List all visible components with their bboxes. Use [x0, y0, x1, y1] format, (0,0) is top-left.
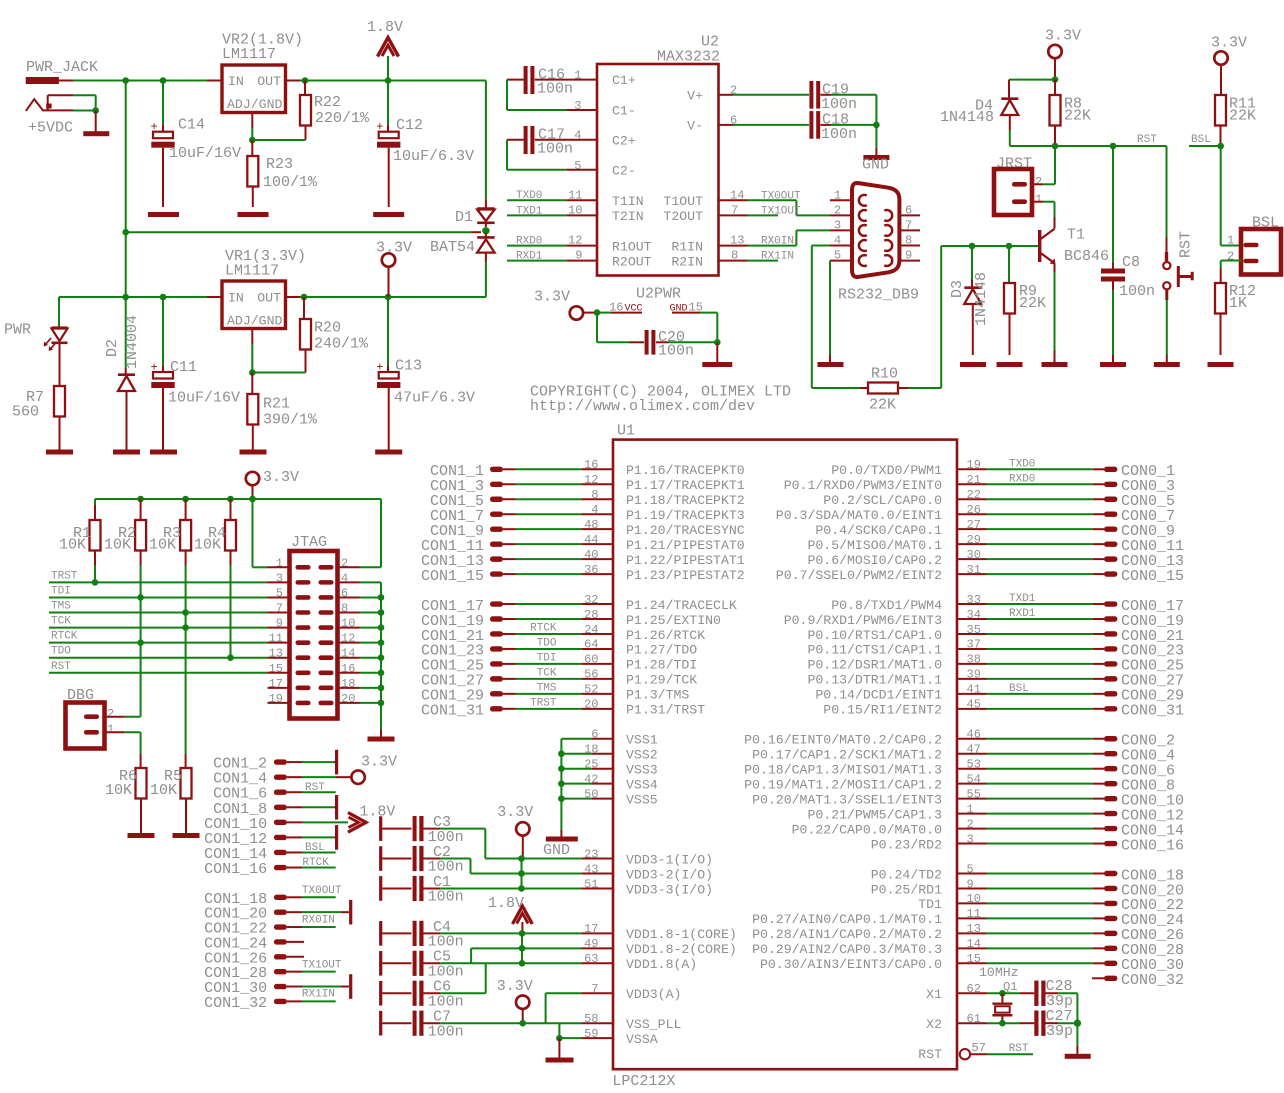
svg-text:13: 13 — [967, 922, 981, 936]
wire DBG pin1 to R6 — [125, 732, 141, 754]
svg-text:1.8V: 1.8V — [367, 19, 403, 36]
svg-text:D3: D3 — [949, 280, 966, 298]
svg-text:C12: C12 — [396, 117, 423, 134]
junction D1 center — [482, 227, 489, 234]
junction rail R3 — [182, 496, 189, 503]
svg-text:10: 10 — [967, 892, 981, 906]
connector pin CON0_15 wire pin 31 — [957, 563, 1184, 585]
svg-text:33: 33 — [967, 593, 981, 607]
svg-text:PWR_JACK: PWR_JACK — [26, 59, 98, 76]
svg-text:BSL: BSL — [1009, 683, 1029, 695]
resistor R23 — [247, 140, 318, 207]
connector pin CON1_9 wire pin 48 — [430, 518, 613, 540]
svg-text:1: 1 — [1227, 234, 1234, 248]
svg-text:P1.17/TRACEPKT1: P1.17/TRACEPKT1 — [626, 478, 745, 493]
svg-text:C1-: C1- — [612, 104, 636, 119]
svg-text:R22: R22 — [314, 94, 341, 111]
resistor R11 — [1215, 95, 1256, 146]
connector pin CON0_11 wire pin 29 — [957, 533, 1184, 555]
junction C27 — [1074, 1019, 1081, 1026]
svg-text:PWR: PWR — [4, 322, 31, 339]
svg-text:C1+: C1+ — [612, 73, 636, 88]
capacitor C20 — [629, 329, 717, 360]
svg-text:TXD1: TXD1 — [1009, 593, 1036, 605]
svg-text:OUT: OUT — [257, 291, 281, 306]
svg-text:TRST: TRST — [51, 570, 78, 582]
svg-text:41: 41 — [967, 683, 981, 697]
junction R4 TDO — [227, 654, 234, 661]
svg-text:ADJ/GND: ADJ/GND — [227, 314, 282, 329]
resistor R8 — [1050, 80, 1092, 146]
svg-text:8: 8 — [731, 249, 738, 263]
svg-text:TDI: TDI — [51, 585, 71, 597]
connector pin CON1_11 wire pin 44 — [421, 533, 613, 555]
svg-text:RS232_DB9: RS232_DB9 — [838, 287, 919, 304]
connector pin CON0_17 wire pin 33 — [957, 593, 1184, 615]
wire JRST pin1 to T1 collector — [1043, 202, 1055, 229]
svg-text:5: 5 — [574, 159, 581, 173]
svg-text:VSSA: VSSA — [626, 1032, 658, 1047]
connector pin CON1_15 wire pin 36 — [421, 563, 613, 585]
capacitor C6 — [379, 979, 486, 1011]
svg-text:3.3V: 3.3V — [1211, 35, 1247, 52]
svg-text:56: 56 — [584, 668, 598, 682]
svg-text:RX0IN: RX0IN — [302, 914, 335, 926]
svg-text:13: 13 — [730, 234, 744, 248]
net label RXD1 wire pin9 — [507, 249, 597, 263]
svg-text:10K: 10K — [194, 537, 221, 554]
ground VSS — [543, 799, 578, 859]
svg-text:50: 50 — [584, 787, 598, 801]
connector pin CON0_31 wire pin 45 — [957, 698, 1184, 720]
ground R21 — [240, 450, 267, 455]
connector pin CON1_1 wire pin 16 — [430, 458, 613, 480]
svg-text:62: 62 — [967, 982, 981, 996]
svg-text:58: 58 — [584, 1012, 598, 1026]
net label TMS wire JTAG — [49, 601, 268, 613]
svg-text:T2IN: T2IN — [612, 209, 644, 224]
ground D3 — [960, 362, 986, 367]
svg-text:10K: 10K — [149, 537, 176, 554]
svg-text:VDD1.8-1(CORE): VDD1.8-1(CORE) — [626, 927, 737, 942]
svg-text:31: 31 — [967, 563, 981, 577]
svg-text:R10: R10 — [871, 366, 898, 383]
svg-text:P1.16/TRACEPKT0: P1.16/TRACEPKT0 — [626, 463, 745, 478]
svg-text:CON0_16: CON0_16 — [1121, 837, 1184, 854]
svg-text:RTCK: RTCK — [51, 631, 78, 643]
svg-text:X2: X2 — [926, 1017, 942, 1032]
net label BSL stub — [1189, 134, 1221, 146]
svg-text:12: 12 — [568, 234, 582, 248]
wire VSS rail — [558, 728, 613, 802]
connector pin CON0_6 wire pin 53 — [957, 758, 1175, 780]
wire VR1 OUT rail 3.3V — [300, 296, 486, 298]
capacitor C27 — [1034, 1008, 1077, 1040]
wire V+ V- join — [875, 95, 877, 125]
connector pin CON1_2 to ground — [213, 750, 338, 775]
supply 1.8V arrow CON1_10 — [348, 804, 395, 833]
svg-text:RXD0: RXD0 — [1009, 473, 1035, 485]
svg-text:P0.3/SDA/MAT0.0/EINT1: P0.3/SDA/MAT0.0/EINT1 — [776, 508, 942, 523]
connector PWR_JACK label — [26, 59, 98, 76]
svg-text:CON0_32: CON0_32 — [1121, 972, 1184, 989]
svg-text:52: 52 — [584, 683, 598, 697]
svg-text:VSS5: VSS5 — [626, 792, 658, 807]
connector pin CON1_3 wire pin 12 — [430, 473, 613, 495]
wire ADJ to R22 — [252, 139, 305, 141]
wire C2 dogleg — [471, 859, 522, 874]
wire 3.3V rail JTAG — [95, 498, 381, 500]
junction C7 3.3V — [519, 1020, 526, 1027]
svg-text:46: 46 — [967, 728, 981, 742]
junction jack — [92, 107, 99, 114]
junction V- GND — [873, 122, 880, 129]
LED PWR — [4, 297, 68, 386]
pin numbers VSS_PLL VSSA — [584, 1012, 598, 1041]
connector pin CON0_26 wire pin 13 — [957, 922, 1184, 944]
svg-text:P0.13/DTR1/MAT1.1: P0.13/DTR1/MAT1.1 — [807, 673, 942, 688]
ground R7 — [46, 450, 73, 455]
svg-text:P0.23/RD2: P0.23/RD2 — [871, 837, 942, 852]
wire RST net — [1055, 145, 1167, 147]
svg-text:P0.11/CTS1/CAP1.1: P0.11/CTS1/CAP1.1 — [807, 643, 942, 658]
svg-text:C11: C11 — [170, 359, 197, 376]
wire +5V to VR1 IN — [59, 296, 207, 298]
connector pin CON1_30 net RX1IN — [204, 974, 352, 1001]
svg-text:VSS2: VSS2 — [626, 748, 658, 763]
ground C18 C19 — [862, 125, 889, 174]
svg-text:28: 28 — [584, 608, 598, 622]
junction R3 TMS — [182, 609, 189, 616]
pin 7 TX1OUT wire — [719, 203, 802, 217]
connector pin CON1_10 to 1.8V — [204, 816, 348, 833]
junction 3.3V R8 — [1052, 76, 1059, 83]
svg-text:10: 10 — [568, 203, 582, 217]
pin 14 TX0OUT wire — [719, 188, 852, 215]
svg-text:100n: 100n — [821, 96, 857, 113]
capacitor C2 — [379, 844, 470, 876]
svg-text:1: 1 — [967, 802, 974, 816]
capacitor C5 — [379, 949, 613, 981]
svg-text:TDO: TDO — [51, 646, 71, 658]
wire +5V vertical left — [125, 81, 127, 298]
svg-text:D2: D2 — [104, 339, 121, 357]
junction VR1 IN x125 — [122, 294, 129, 301]
capacitor C7 — [379, 1009, 613, 1041]
svg-text:1.8V: 1.8V — [488, 895, 524, 912]
svg-text:R1OUT: R1OUT — [612, 240, 652, 255]
svg-text:15: 15 — [689, 301, 703, 315]
DB9 pin 7 stub — [898, 218, 920, 232]
junction 3.3V JTAG rail — [249, 496, 256, 503]
connector JRST — [994, 156, 1043, 216]
DB9 pin 4 wire — [812, 234, 852, 389]
svg-text:RTCK: RTCK — [530, 623, 557, 635]
connector pin CON0_32 stub — [1092, 972, 1184, 989]
wire jack lower to node — [73, 110, 95, 112]
svg-text:10uF/16V: 10uF/16V — [169, 145, 241, 162]
svg-text:RXD1: RXD1 — [1009, 608, 1036, 620]
junction VDD3-3 — [518, 885, 525, 892]
connector pin CON1_5 wire pin 8 — [430, 488, 613, 510]
svg-text:P1.31/TRST: P1.31/TRST — [626, 703, 705, 718]
svg-text:17: 17 — [584, 922, 598, 936]
svg-text:53: 53 — [967, 758, 981, 772]
junction VDD18-3 — [519, 960, 526, 967]
svg-text:P0.21/PWM5/CAP1.3: P0.21/PWM5/CAP1.3 — [807, 807, 942, 822]
svg-text:LM1117: LM1117 — [222, 46, 276, 63]
resistor R2 — [104, 499, 146, 717]
svg-text:1: 1 — [574, 69, 581, 83]
connector pin CON1_20 net RX0IN — [204, 900, 352, 927]
svg-text:P0.7/SSEL0/PWM2/EINT2: P0.7/SSEL0/PWM2/EINT2 — [776, 568, 942, 583]
svg-text:RX1IN: RX1IN — [761, 251, 794, 263]
connector pin CON0_28 wire pin 14 — [957, 937, 1184, 959]
connector RS232_DB9 body — [838, 183, 919, 304]
connector pin CON0_8 wire pin 54 — [957, 772, 1175, 794]
svg-text:23: 23 — [584, 847, 598, 861]
svg-text:6: 6 — [905, 203, 912, 217]
svg-text:R2IN: R2IN — [671, 255, 703, 270]
DB9 pin 3 number — [834, 218, 841, 232]
resistor R4 — [194, 499, 236, 658]
svg-text:R21: R21 — [263, 396, 290, 413]
junction C20 gnd — [714, 339, 721, 346]
svg-text:1N4148: 1N4148 — [973, 272, 990, 326]
connector pin CON1_14 net BSL — [204, 842, 336, 863]
resistor R21 — [247, 373, 318, 450]
svg-text:25: 25 — [584, 758, 598, 772]
junction RST node — [1052, 143, 1059, 150]
svg-text:4: 4 — [591, 503, 598, 517]
svg-text:P0.5/MISO0/MAT0.1: P0.5/MISO0/MAT0.1 — [807, 538, 942, 553]
svg-text:10uF/16V: 10uF/16V — [168, 390, 240, 407]
junction R3 TCK — [182, 624, 189, 631]
svg-text:TXD0: TXD0 — [1009, 459, 1035, 471]
svg-text:30: 30 — [967, 548, 981, 562]
capacitor C4 — [379, 919, 613, 951]
junction VR2 OUT — [302, 77, 309, 84]
svg-text:P0.2/SCL/CAP0.0: P0.2/SCL/CAP0.0 — [823, 493, 942, 508]
resistor R3 — [149, 499, 191, 754]
svg-text:26: 26 — [967, 503, 981, 517]
connector JTAG box — [268, 534, 360, 719]
svg-text:BAT54: BAT54 — [430, 239, 475, 256]
svg-text:TX0OUT: TX0OUT — [302, 885, 342, 897]
net label RTCK wire JTAG — [49, 631, 268, 643]
net label TRST wire JTAG — [49, 570, 268, 582]
net label TCK wire JTAG — [49, 616, 268, 628]
resistor R22 — [300, 81, 370, 141]
svg-text:3.3V: 3.3V — [361, 754, 397, 771]
connector pin CON0_9 wire pin 27 — [957, 518, 1175, 540]
connector pin CON0_29 wire pin 41 — [957, 683, 1184, 705]
svg-text:TD1: TD1 — [918, 897, 942, 912]
wire VDD3-1 pin — [522, 858, 614, 860]
supply 3.3V circle CON1_4 — [351, 754, 397, 784]
connector pin CON0_5 wire pin 22 — [957, 488, 1175, 510]
connector pin CON1_6 net RST — [213, 782, 336, 803]
svg-text:P0.27/AIN0/CAP0.1/MAT0.1: P0.27/AIN0/CAP0.1/MAT0.1 — [752, 912, 942, 927]
wire VDD3-2 pin — [522, 872, 614, 874]
junction BSL node — [1217, 143, 1224, 150]
svg-text:P0.14/DCD1/EINT1: P0.14/DCD1/EINT1 — [815, 688, 942, 703]
svg-text:CON0_15: CON0_15 — [1121, 568, 1184, 585]
svg-text:P1.19/TRACEPKT3: P1.19/TRACEPKT3 — [626, 508, 745, 523]
svg-text:VDD3(A): VDD3(A) — [626, 987, 681, 1002]
svg-text:TCK: TCK — [537, 667, 557, 679]
transistor T1 BC846 — [1038, 227, 1109, 363]
svg-text:8: 8 — [905, 234, 912, 248]
svg-text:RST: RST — [305, 782, 325, 794]
svg-text:1K: 1K — [1229, 295, 1247, 312]
connector pin CON1_24 stub — [204, 935, 304, 952]
diode D4 1N4148 — [940, 80, 1055, 146]
resistor R6 — [105, 754, 147, 833]
ground R6 — [128, 833, 155, 838]
wire crystal caps join — [1076, 993, 1078, 1023]
svg-text:T2OUT: T2OUT — [663, 209, 703, 224]
svg-text:55: 55 — [967, 787, 981, 801]
connector pin CON0_2 wire pin 46 — [957, 728, 1175, 750]
svg-text:VDD3-2(I/O): VDD3-2(I/O) — [626, 867, 713, 882]
svg-text:+5VDC: +5VDC — [28, 120, 73, 137]
svg-text:R1IN: R1IN — [671, 240, 703, 255]
svg-text:10K: 10K — [59, 537, 86, 554]
svg-text:TX0OUT: TX0OUT — [761, 190, 801, 202]
svg-text:10MHz: 10MHz — [979, 965, 1019, 980]
svg-text:220/1%: 220/1% — [315, 110, 370, 127]
wire D4 to RST node — [1010, 145, 1055, 147]
svg-text:22K: 22K — [1229, 108, 1256, 125]
diode D3 1N4148 — [949, 246, 990, 355]
svg-text:100n: 100n — [428, 889, 464, 906]
svg-text:D1: D1 — [455, 209, 473, 226]
connector pin CON1_4 to 3.3V — [213, 771, 351, 788]
svg-text:3: 3 — [574, 99, 581, 113]
svg-text:51: 51 — [584, 877, 598, 891]
junction R2 RTCK — [137, 639, 144, 646]
svg-text:3.3V: 3.3V — [376, 240, 412, 257]
resistor R5 — [150, 754, 192, 833]
junction 1.8V x388 — [385, 77, 392, 84]
svg-text:P0.29/AIN2/CAP0.3/MAT0.3: P0.29/AIN2/CAP0.3/MAT0.3 — [752, 942, 942, 957]
junction C8 tap — [1110, 143, 1117, 150]
svg-text:42: 42 — [584, 772, 598, 786]
svg-text:C14: C14 — [178, 117, 205, 134]
svg-text:P1.27/TDO: P1.27/TDO — [626, 643, 697, 658]
ground C14 — [148, 212, 179, 217]
IC U1 box — [612, 423, 957, 1091]
op-amp U2 MAX3232 box — [597, 34, 720, 276]
svg-text:R23: R23 — [266, 156, 293, 173]
svg-text:+: + — [376, 120, 383, 134]
DB9 pin 1 stub — [830, 188, 852, 202]
svg-text:RTCK: RTCK — [302, 857, 329, 869]
svg-text:CON1_31: CON1_31 — [421, 703, 484, 720]
pin 8 RX1IN wire — [719, 249, 795, 263]
svg-text:24: 24 — [584, 623, 598, 637]
svg-text:9: 9 — [967, 877, 974, 891]
connector pin CON1_31 wire pin 20 — [421, 697, 613, 719]
svg-text:100n: 100n — [428, 1023, 464, 1040]
svg-text:1N4148: 1N4148 — [940, 109, 994, 126]
resistor R9 — [1004, 246, 1046, 355]
connector pin CON1_25 wire pin 60 — [421, 653, 613, 675]
junction node 5V-D1 wire — [122, 229, 129, 236]
connector pin CON0_4 wire pin 47 — [957, 743, 1175, 765]
svg-text:P1.29/TCK: P1.29/TCK — [626, 673, 697, 688]
crystal Q1 10MHz — [957, 965, 1034, 1026]
svg-text:P0.4/SCK0/CAP0.1: P0.4/SCK0/CAP0.1 — [815, 523, 942, 538]
svg-text:P0.28/AIN1/CAP0.2/MAT0.2: P0.28/AIN1/CAP0.2/MAT0.2 — [752, 927, 942, 942]
svg-text:T1OUT: T1OUT — [663, 194, 703, 209]
svg-text:2: 2 — [1035, 175, 1042, 189]
ground +5VDC — [83, 111, 109, 137]
svg-text:RX0IN: RX0IN — [761, 236, 794, 248]
svg-text:10K: 10K — [105, 782, 132, 799]
wire C17 to pin5 — [507, 140, 597, 173]
svg-text:61: 61 — [967, 1012, 981, 1026]
svg-text:RST: RST — [1009, 1043, 1029, 1055]
svg-text:45: 45 — [967, 698, 981, 712]
svg-text:OUT: OUT — [257, 74, 281, 89]
capacitor C11 — [151, 297, 241, 450]
junction 3.3V x388 — [385, 294, 392, 301]
svg-text:P0.1/RXD0/PWM3/EINT0: P0.1/RXD0/PWM3/EINT0 — [784, 478, 942, 493]
wire VSSPLL down — [558, 1023, 560, 1038]
svg-text:2: 2 — [730, 84, 737, 98]
pin numbers VDD3 — [584, 847, 598, 891]
capacitor C8 — [1101, 146, 1155, 362]
capacitor C13 — [376, 297, 475, 450]
svg-text:LM1117: LM1117 — [225, 263, 279, 280]
svg-text:X1: X1 — [926, 987, 942, 1002]
connector pin CON1_32 — [204, 995, 336, 1012]
svg-text:18: 18 — [584, 743, 598, 757]
svg-text:100n: 100n — [658, 343, 694, 360]
svg-text:VSS3: VSS3 — [626, 763, 658, 778]
wire jack upper to node — [73, 95, 95, 110]
svg-text:TDI: TDI — [537, 653, 557, 665]
wire R10 to T1 base — [941, 246, 1038, 388]
svg-text:GND: GND — [862, 157, 889, 174]
svg-text:+: + — [376, 361, 383, 375]
svg-text:GND: GND — [543, 842, 570, 859]
wire +5V rail top — [73, 80, 207, 82]
pin 57 RST wire — [960, 1041, 1033, 1059]
svg-text:BSL: BSL — [1191, 134, 1211, 146]
svg-text:P1.25/EXTIN0: P1.25/EXTIN0 — [626, 613, 721, 628]
connector pin CON0_30 wire pin 15 — [957, 952, 1184, 974]
connector pin CON0_20 wire pin 9 — [957, 877, 1184, 899]
ground C11 — [150, 450, 177, 455]
wire VDD3-3 pin — [522, 887, 614, 889]
svg-text:RST: RST — [918, 1047, 942, 1062]
svg-text:IN: IN — [228, 291, 244, 306]
connector pin CON0_21 wire pin 35 — [957, 623, 1184, 645]
svg-text:37: 37 — [967, 638, 981, 652]
wire VR2 OUT to 1.8V rail — [300, 80, 486, 82]
svg-text:+: + — [151, 120, 158, 134]
connector pin CON1_28 net TX1OUT — [204, 959, 342, 982]
svg-text:6: 6 — [730, 114, 737, 128]
svg-text:1: 1 — [834, 188, 841, 202]
svg-text:CON1_15: CON1_15 — [421, 568, 484, 585]
supply 3.3V circle JTAG — [246, 469, 299, 499]
net label TXD0 wire pin11 — [507, 188, 597, 202]
ground D2 — [113, 450, 140, 455]
